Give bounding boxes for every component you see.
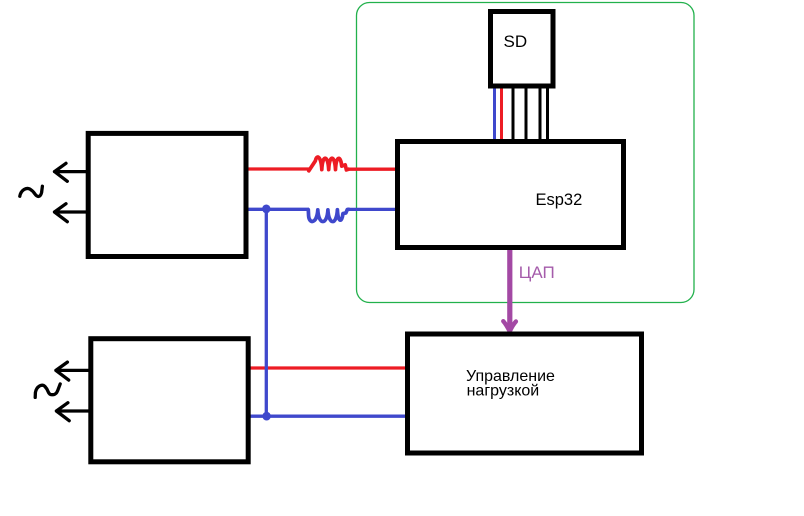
bus wire blue (SD to Esp32)	[493, 87, 496, 142]
arrow out bottom 2	[56, 403, 90, 421]
inductor L2 (blue coil)	[308, 209, 348, 221]
wire blue top (right segment)	[348, 208, 398, 211]
arrow out top 2	[55, 204, 88, 222]
AC tilde symbol top	[20, 186, 43, 196]
wire red top (right segment)	[348, 168, 398, 171]
bus wire black 2	[525, 86, 528, 143]
svg-text:Esp32: Esp32	[536, 191, 583, 209]
svg-text:ЦАП: ЦАП	[519, 263, 555, 282]
wire red top (left segment)	[245, 167, 309, 170]
DAC arrow shaft (purple)	[507, 249, 512, 328]
svg-text:SD: SD	[504, 32, 528, 51]
svg-text:нагрузкой: нагрузкой	[467, 383, 540, 400]
bus wire red (SD to Esp32)	[500, 87, 503, 142]
arrow out top 1	[55, 163, 88, 181]
source box bottom	[91, 339, 248, 462]
wire red bottom	[248, 366, 407, 369]
arrow out bottom 1	[56, 362, 90, 380]
junction node B (blue dot)	[262, 412, 270, 421]
wire blue vertical	[265, 209, 268, 416]
bus wire black 3	[539, 86, 542, 143]
junction node A (blue dot)	[262, 205, 270, 214]
wire blue top (left segment)	[245, 208, 309, 211]
source box top	[88, 133, 246, 256]
SD card box	[491, 12, 554, 87]
bus wire black 1	[512, 86, 515, 143]
load control box	[408, 334, 642, 453]
AC tilde symbol bottom	[35, 384, 60, 398]
DAC arrow head (purple)	[503, 321, 516, 331]
wire blue bottom	[248, 415, 407, 418]
mcu box Esp32	[398, 142, 624, 248]
bus wire black 4	[546, 86, 549, 143]
inductor L1 (red coil)	[309, 157, 349, 171]
enclosure (green rounded box)	[357, 3, 695, 303]
